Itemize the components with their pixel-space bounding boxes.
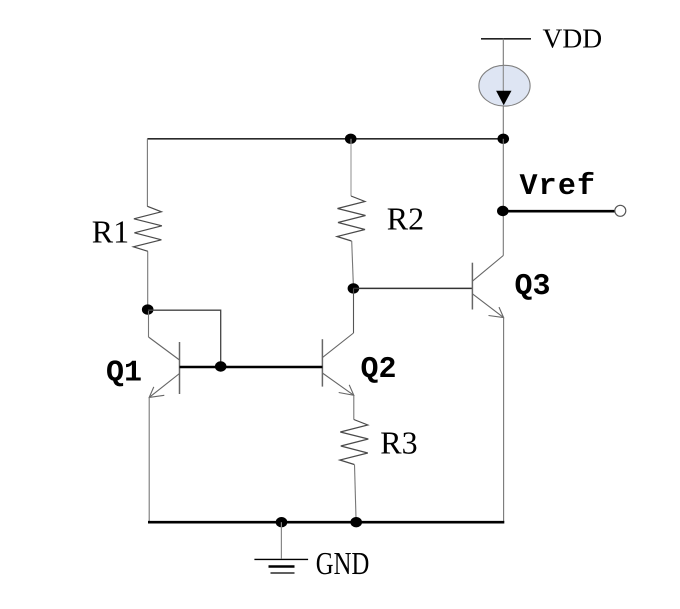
resistor R3: [340, 420, 369, 465]
wire bottom rail: [148, 521, 504, 524]
svg-text:R3: R3: [380, 425, 417, 461]
wire inside current source: [502, 66, 504, 91]
wire top rail to R1: [146, 139, 148, 207]
wire Vref node down to Q3 collector: [502, 139, 504, 256]
transistor Q2: [322, 333, 353, 395]
node Vref: [497, 206, 509, 216]
svg-text:GND: GND: [316, 545, 370, 581]
transistor Q3: [472, 256, 503, 318]
wire R3 to bottom rail: [355, 465, 357, 519]
resistor R1: [133, 206, 162, 251]
wire Q2 emitter to R3: [353, 395, 355, 419]
wire R1 to node A: [147, 251, 149, 305]
wire node B down to Q2 collector: [353, 288, 355, 333]
transistor Q1 (mirrored): [149, 337, 180, 397]
node top rail / current source: [498, 134, 510, 144]
node B (R2 bottom / Q2 collector / Q3 base): [348, 283, 360, 293]
wire node A to base junction: [148, 310, 221, 366]
wire base line Q1-Q2: [180, 366, 323, 369]
current source I1 body: [479, 65, 530, 106]
wire current source to top rail: [502, 106, 504, 139]
svg-text:R1: R1: [92, 214, 129, 250]
node top rail / R2: [345, 134, 357, 144]
node bottom rail / R3: [350, 517, 362, 527]
wire Q3 emitter to bottom rail: [503, 318, 505, 522]
wire top rail to R2: [350, 139, 352, 196]
current source I1 arrow: [496, 91, 511, 106]
wire R2 to node B: [352, 241, 354, 284]
svg-text:Q2: Q2: [361, 353, 397, 387]
terminal Vref open circle: [615, 205, 626, 216]
svg-text:Vref: Vref: [520, 170, 596, 204]
ground symbol: [254, 559, 308, 573]
wire top rail: [147, 138, 503, 140]
svg-text:VDD: VDD: [543, 23, 603, 54]
wire Q1 collector to node A: [148, 311, 150, 337]
svg-text:Q1: Q1: [106, 356, 142, 390]
resistor R2: [337, 196, 366, 241]
wire Q1 emitter to bottom rail: [148, 397, 150, 522]
node A (R1 bottom / Q1 collector): [142, 304, 154, 314]
node bottom rail / GND: [276, 517, 288, 527]
wire VDD stem to current source: [502, 39, 504, 66]
node base junction: [215, 361, 227, 371]
ground stem: [280, 522, 282, 558]
svg-text:R2: R2: [387, 201, 424, 237]
wire Vref output: [503, 210, 615, 213]
wire node B to Q3 base: [353, 287, 472, 289]
power symbol VDD bar: [481, 38, 531, 40]
svg-text:Q3: Q3: [515, 270, 551, 304]
